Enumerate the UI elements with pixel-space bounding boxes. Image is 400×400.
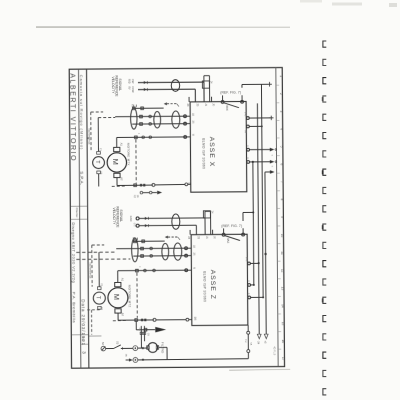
dashed shield link between Z A1 and A2 rows: [136, 273, 138, 318]
shield ovals on Z motor cable: [132, 238, 139, 262]
vertical rail 4: [265, 172, 266, 334]
Z ref input terminal 2: [136, 224, 139, 227]
connector pin marks on X ref wires: [144, 81, 147, 84]
tacho generator (X axis): [93, 157, 105, 169]
svg-text:ELMO ISP 10/360: ELMO ISP 10/360: [202, 138, 206, 169]
tacho X leads: [97, 118, 99, 152]
Z ref wire 2: [139, 224, 196, 226]
Z motor cable row 2: [76, 251, 116, 253]
wire from A7 up to rail 1: [242, 212, 244, 220]
svg-text:R: R: [246, 157, 249, 159]
X box right pin w4 with off-page arrow: [247, 161, 250, 164]
X box right pin w2: [246, 125, 249, 128]
wire from A8 to +24V rail: [241, 84, 243, 87]
svg-text:(REF. FIG. 7): (REF. FIG. 7): [221, 224, 242, 228]
dashed leadscrew link bottom-left: [87, 309, 99, 311]
svg-text:ELMO ISP 10/360: ELMO ISP 10/360: [203, 271, 207, 302]
ASSE Z drive box: [191, 234, 248, 325]
relay contact A8 terminal right: [241, 100, 244, 103]
X armature wire A2 row: [116, 178, 118, 186]
X armature wire A1 row: [116, 137, 118, 147]
rail 3 end arrow: [264, 334, 268, 339]
rail 2 end arrow: [257, 334, 261, 339]
svg-text:24C: 24C: [243, 112, 246, 117]
X auxiliary row with arrow: [140, 191, 143, 194]
svg-text:DR: DR: [193, 317, 197, 321]
svg-text:VELOCITY: VELOCITY: [112, 207, 116, 225]
Z auxiliary row with bold arrow: [135, 321, 137, 329]
dashed mechanical coupling Z: [92, 244, 104, 246]
svg-text:SIGNAL: SIGNAL: [118, 78, 122, 91]
relay contact A8 terminal left: [221, 101, 224, 104]
svg-text:Camucia sul Rovigo (Milano): Camucia sul Rovigo (Milano): [79, 75, 85, 150]
ticks from A8 terminals up to note: [222, 95, 224, 100]
svg-text:9: 9: [280, 216, 284, 218]
Z armature wire A1 row: [117, 271, 119, 283]
svg-text:(REF. FIG. 7): (REF. FIG. 7): [220, 90, 241, 94]
svg-text:Fo.: Fo.: [81, 337, 85, 342]
shield oval on X ref pair: [171, 80, 179, 92]
X elbow wire with off-page arrow: [265, 171, 270, 173]
svg-text:5: 5: [280, 146, 284, 148]
svg-text:4: 4: [279, 128, 283, 130]
Z ref input terminal 1: [136, 217, 139, 220]
connector box on X box-top feed: [202, 81, 209, 88]
X motor cable row 2 (dashed tail from tacho): [98, 116, 115, 118]
svg-text:-24: -24: [256, 341, 259, 345]
svg-text:10: 10: [280, 234, 284, 238]
Z ref wire 1: [139, 217, 205, 220]
wire to filter: [138, 347, 147, 349]
switch S5: [106, 348, 114, 350]
+24V terminal mark: [267, 83, 272, 85]
vertical rail 1 (X pin to Z pin): [252, 162, 255, 285]
svg-text:FU: FU: [244, 339, 247, 342]
shield drain arrow (Z): [165, 236, 168, 239]
ASSE X drive box: [190, 101, 247, 192]
column reference ticks and numbers on right border: [276, 84, 279, 86]
svg-text:8AZ: 8AZ: [226, 238, 230, 243]
connector pin marks on Z ref wires: [145, 217, 148, 220]
spiral binding shadow marks, right edge: [323, 41, 326, 47]
svg-text:13: 13: [281, 287, 285, 291]
Z box right pin z3: [248, 296, 251, 299]
svg-text:CCW: CCW: [131, 86, 135, 93]
shield ovals on X motor cable: [131, 108, 138, 129]
svg-text:7: 7: [280, 181, 284, 183]
svg-text:1: 1: [279, 75, 283, 77]
Z box right pin z2: [248, 284, 251, 287]
svg-text:S5: S5: [116, 341, 120, 345]
svg-text:GND: GND: [129, 216, 133, 222]
svg-text:MOTORE MTX: MOTORE MTX: [126, 143, 130, 166]
X box right pin w1: [246, 117, 249, 120]
terminal circle C1: [133, 346, 138, 351]
lower power row wire: [138, 359, 249, 360]
Z motor cable row 3: [76, 258, 130, 260]
motor MTZ (Z axis): [108, 288, 128, 308]
scan artifact: smudges top-right: [332, 3, 362, 6]
tacho Z leads: [98, 252, 100, 287]
svg-text:3: 3: [279, 111, 283, 113]
svg-text:VELOCITY: VELOCITY: [111, 76, 115, 94]
shield oval on Z ref pair: [172, 214, 180, 229]
vertical rail 3 (+24V): [261, 84, 263, 297]
riser jog to second box-top pin (Z): [204, 211, 206, 217]
X ref wire 2: [138, 88, 195, 90]
X box top stub pins: [188, 97, 190, 102]
junction dot on rail 4 near Z row3: [264, 253, 266, 255]
svg-text:SIGNAL: SIGNAL: [119, 209, 123, 222]
Z box top stub pins: [189, 230, 191, 235]
faint scanner ghost line below frame: [229, 368, 290, 371]
svg-text:P.A. Brembilla: P.A. Brembilla: [72, 292, 77, 323]
svg-text:16: 16: [281, 339, 285, 343]
svg-text:A1: A1: [119, 143, 123, 147]
drawing frame border: [69, 68, 284, 369]
X motor cable row 1: [132, 107, 163, 109]
relay contact A7 terminal left: [222, 233, 225, 236]
svg-text:S.P.A.: S.P.A.: [79, 171, 84, 185]
terminal circle C2 with line arrow: [133, 358, 138, 363]
A7 contact blade: [225, 236, 240, 241]
dashed mechanical coupling X: [91, 111, 103, 113]
connector box on Z box-top feed: [203, 211, 210, 218]
svg-text:2: 2: [279, 93, 283, 95]
svg-text:R: R: [246, 280, 249, 282]
svg-text:ALBERTI VITTORIO: ALBERTI VITTORIO: [68, 73, 76, 162]
dashed shield link between A1 and A2 rows: [135, 139, 137, 183]
svg-text:4D FL.0: 4D FL.0: [272, 346, 275, 355]
scan artifact: faint dotted rule at top of page: [36, 26, 290, 28]
svg-text:M: M: [112, 294, 121, 300]
svg-text:S2: S2: [101, 342, 105, 346]
svg-text:M: M: [192, 267, 195, 269]
inner border line (column strip): [276, 68, 278, 367]
svg-text:2A: 2A: [136, 195, 139, 198]
svg-text:1R: 1R: [192, 245, 195, 248]
svg-text:14: 14: [281, 304, 285, 308]
svg-text:8AX: 8AX: [225, 105, 229, 110]
Z box left pin circles: [185, 247, 188, 250]
svg-text:24C: 24C: [245, 257, 248, 262]
svg-text:2R: 2R: [191, 120, 194, 123]
svg-text:6: 6: [280, 163, 284, 165]
relay contact A7 terminal right: [242, 233, 245, 236]
svg-text:M: M: [111, 159, 120, 165]
svg-text:R: R: [245, 145, 248, 147]
wire from filter down to lower row: [159, 346, 167, 348]
filter FILTRO: [148, 343, 158, 353]
mains plug symbol S2: [101, 346, 106, 351]
svg-text:12: 12: [281, 269, 285, 273]
X ref wire 1: [138, 81, 204, 84]
svg-text:0V: 0V: [146, 333, 148, 336]
svg-text:11: 11: [280, 251, 284, 255]
X box left pin circles: [184, 115, 187, 118]
X box right pin w3 with off-page arrow: [247, 148, 250, 151]
svg-text:M: M: [191, 134, 194, 136]
feeds from Z drive down to power rows: [140, 326, 142, 348]
svg-text:2R: 2R: [192, 252, 195, 255]
A8 contact blade: [224, 103, 239, 108]
svg-text:CW: CW: [131, 79, 135, 84]
Z motor cable row 1: [133, 240, 164, 242]
svg-text:0B: 0B: [244, 130, 247, 133]
svg-text:R: R: [247, 293, 250, 295]
svg-text:Disegno KBIT 2030 V2.2/2g: Disegno KBIT 2030 V2.2/2g: [71, 222, 76, 283]
X motor cable row 3: [132, 123, 186, 125]
vertical rail 2 (-24V): [257, 103, 259, 334]
ticks from A7 terminals up to note: [223, 228, 225, 233]
tacho generator (Z axis): [93, 292, 105, 304]
svg-text:1R: 1R: [191, 113, 194, 116]
svg-text:15: 15: [281, 322, 285, 326]
Z armature wire A2 row: [117, 313, 119, 320]
riser jog to second box-top pin (X): [203, 76, 205, 82]
svg-text:A1: A1: [120, 278, 124, 282]
motor MTX (X axis): [107, 153, 127, 173]
svg-text:ASSE Z: ASSE Z: [209, 270, 216, 300]
svg-text:MOTORE MTZ: MOTORE MTZ: [127, 285, 131, 308]
shield drain arrow (X): [164, 102, 167, 105]
svg-text:Cliente:: Cliente:: [75, 208, 79, 218]
svg-text:FU: FU: [138, 328, 140, 331]
title block dividers: [79, 69, 81, 368]
Z box right pin z1: [248, 262, 251, 265]
svg-text:17: 17: [281, 357, 285, 361]
svg-text:8: 8: [280, 199, 284, 201]
fuse column from Z box bottom right: [247, 325, 249, 331]
svg-text:ASSE X: ASSE X: [208, 137, 215, 168]
